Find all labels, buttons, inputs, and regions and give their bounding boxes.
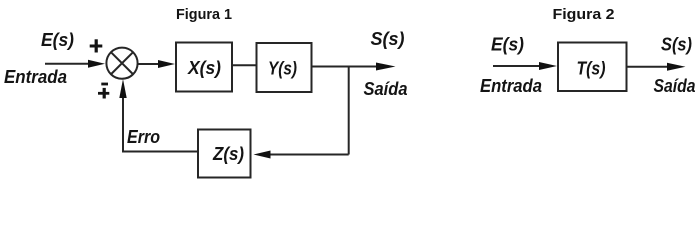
wire input to summing junction <box>45 63 90 65</box>
block Y1 rectangle <box>257 43 312 92</box>
arrowhead into Z block <box>254 151 271 159</box>
svg-text:S(s): S(s) <box>661 35 692 55</box>
svg-text:Y(s): Y(s) <box>268 59 297 79</box>
svg-text:Saída: Saída <box>364 79 408 99</box>
svg-text:Erro: Erro <box>127 127 160 147</box>
plus sign upper <box>90 39 103 52</box>
svg-text:Saída: Saída <box>654 76 696 96</box>
wire feedback left segment <box>122 151 198 153</box>
wire junction drop from output line <box>348 67 350 155</box>
svg-text:Entrada: Entrada <box>4 67 67 87</box>
block X1 rectangle <box>176 43 232 92</box>
minus sign lower <box>101 83 108 86</box>
arrowhead up into summing junction <box>119 79 126 98</box>
block Z1 rectangle <box>198 130 251 178</box>
wire feedback right segment <box>270 154 349 156</box>
svg-text:S(s): S(s) <box>371 29 405 49</box>
arrowhead output fig1 <box>376 63 396 71</box>
svg-text:X(s): X(s) <box>187 58 221 78</box>
svg-text:Figura 1: Figura 1 <box>176 6 232 23</box>
svg-text:Figura 2: Figura 2 <box>553 6 615 23</box>
arrowhead into summing junction <box>88 60 105 68</box>
summing junction circle <box>106 48 137 79</box>
svg-text:E(s): E(s) <box>41 30 74 50</box>
svg-text:E(s): E(s) <box>491 35 524 55</box>
svg-text:Z(s): Z(s) <box>212 144 244 164</box>
wire output fig2 <box>627 66 670 68</box>
wire summing junction to X block <box>138 63 159 65</box>
summing junction X diagonals <box>111 52 133 74</box>
svg-text:Entrada: Entrada <box>480 76 542 96</box>
arrowhead into X block <box>158 60 175 68</box>
svg-text:T(s): T(s) <box>577 59 606 79</box>
wire feedback vertical up to summing junction <box>122 96 124 153</box>
arrowhead into T block <box>539 62 557 70</box>
wire X block to Y block <box>232 64 257 66</box>
block T2 rectangle <box>558 43 627 92</box>
wire input fig2 <box>493 65 540 67</box>
arrowhead output fig2 <box>667 63 686 71</box>
wire Y block to output <box>312 66 378 68</box>
plus sign lower <box>98 88 109 99</box>
